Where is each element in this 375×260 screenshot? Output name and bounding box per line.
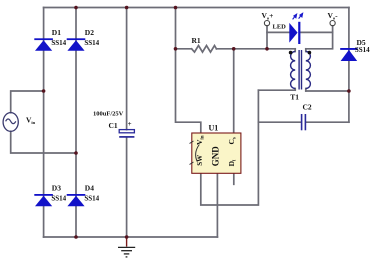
svg-text:SS14: SS14 xyxy=(84,39,99,47)
svg-text:D3: D3 xyxy=(52,184,61,193)
svg-text:D2: D2 xyxy=(85,28,94,37)
svg-text:SW: SW xyxy=(196,155,204,166)
svg-text:SS14: SS14 xyxy=(51,194,66,202)
svg-text:SS14: SS14 xyxy=(84,194,99,202)
svg-text:D1: D1 xyxy=(52,28,61,37)
svg-text:U1: U1 xyxy=(209,123,219,132)
svg-text:GND: GND xyxy=(210,146,220,167)
svg-text:SS14: SS14 xyxy=(355,46,370,54)
svg-text:T1: T1 xyxy=(290,92,299,101)
svg-text:D4: D4 xyxy=(85,184,94,193)
svg-text:R1: R1 xyxy=(192,36,201,45)
svg-text:SS14: SS14 xyxy=(51,39,66,47)
svg-text:LED: LED xyxy=(273,24,287,31)
svg-text:100uF/25V: 100uF/25V xyxy=(93,111,124,118)
svg-text:+: + xyxy=(128,120,132,128)
svg-text:C2: C2 xyxy=(303,103,312,112)
svg-text:C1: C1 xyxy=(109,121,118,130)
svg-text:Vo-: Vo- xyxy=(328,11,339,21)
